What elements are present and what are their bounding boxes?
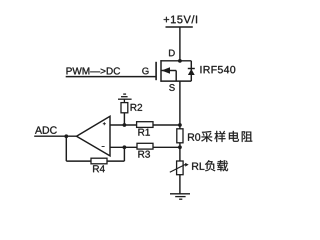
wire R0 bottom [179,143,181,148]
wire output to ADC [34,135,77,137]
wire source [179,81,181,125]
wire noninverting input [110,124,137,126]
junction drain [178,59,182,63]
load RL variable resistor [177,161,184,175]
node R1/R0 [178,123,182,127]
node R3/R0 [178,145,182,149]
label R1 [138,129,144,136]
power rail bar [166,26,193,28]
label R0 sampling resistor [188,133,194,140]
resistor R0 [177,129,183,143]
label IRF540 [199,66,202,73]
resistor R4 [91,158,107,164]
wire R1 to node [153,124,180,126]
pin label D [169,50,175,57]
power label +15V/I [164,17,169,22]
label PWM->DC [67,68,72,75]
wire RL bottom [179,175,181,194]
op-amp U1 [77,116,111,156]
pin label G [142,68,148,75]
ground flipped above R2 [118,94,132,103]
node R2/R1 [123,123,127,127]
wire R0 top [179,125,181,129]
resistor R2 [121,103,128,113]
wire gate [66,76,156,78]
op-amp minus mark [102,146,105,148]
label RL load [192,163,198,170]
wire feedback down [65,136,67,161]
label R3 [138,151,144,158]
wire R2 bottom [123,113,125,125]
wire inverting input [110,146,137,148]
resistor R3 [137,143,153,149]
label ADC [35,126,42,133]
resistor R1 [137,122,153,128]
ground [170,194,190,199]
wire feedback up [123,147,125,161]
node feedback/R3 [123,145,127,149]
transistor Q1 IRF540 [156,60,195,81]
wire feedback bottom right [107,160,124,162]
node output [64,134,68,138]
pin label S [169,84,174,91]
wire drain [179,27,181,61]
wire feedback bottom left [66,160,91,162]
label R2 [131,104,137,111]
wire RL top [179,147,181,161]
label R4 [93,165,99,172]
wire R3 to node [153,146,180,148]
op-amp plus mark [103,122,106,125]
